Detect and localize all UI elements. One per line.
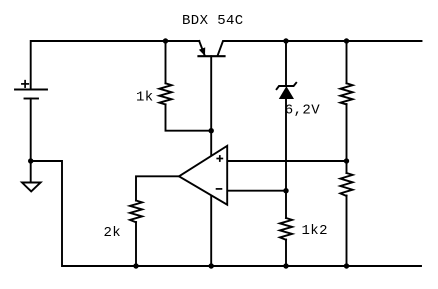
svg-text:6,2V: 6,2V xyxy=(285,103,320,119)
svg-text:1k2: 1k2 xyxy=(302,223,328,239)
svg-text:BDX 54C: BDX 54C xyxy=(182,13,244,29)
svg-text:1k: 1k xyxy=(136,90,154,106)
svg-text:2k: 2k xyxy=(104,225,122,241)
